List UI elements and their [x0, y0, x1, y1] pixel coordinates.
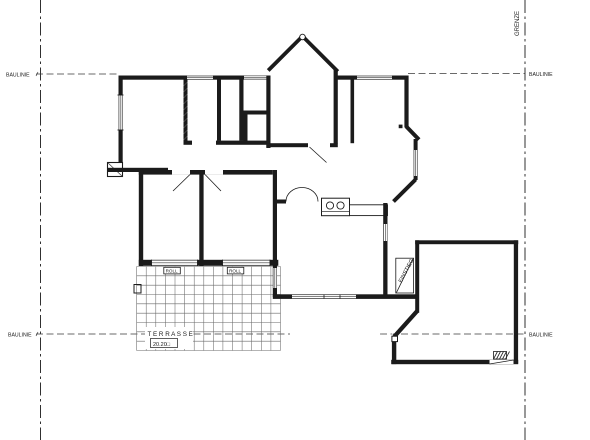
wall: essen bay east	[414, 139, 418, 180]
terrace paving grid	[137, 267, 281, 351]
window: west wall gaestezimmer	[119, 95, 123, 130]
door swing kind	[205, 175, 221, 192]
wall: essen bay lower diagonal	[394, 180, 416, 202]
svg-text:T E R R A S S E: T E R R A S S E	[148, 331, 193, 338]
wall: west exterior gaestezimmer	[119, 76, 123, 164]
wall: entry west below diagonal	[392, 342, 396, 365]
property line left (dash-dot)	[40, 0, 42, 440]
BAULINIE lower dashed line	[36, 333, 290, 335]
window: north wall above bad	[187, 76, 213, 80]
svg-text:BAULINIE: BAULINIE	[8, 333, 32, 339]
arc door diele to wohnen	[286, 188, 318, 202]
window marks on bay lower diagonal	[391, 177, 413, 199]
wall: bathtub right plumbing	[239, 80, 243, 141]
door gap to eltern	[172, 170, 190, 175]
roll shutter box eltern window	[164, 267, 181, 274]
fireplace unit between diele and wohnen	[322, 198, 350, 216]
wall: bad south / gang north	[184, 141, 193, 145]
wall: south exterior wohnen/einstieg	[273, 294, 419, 299]
terrace left step	[134, 285, 141, 294]
svg-text:BAULINIE: BAULINIE	[529, 72, 553, 78]
window: kitchen north	[357, 76, 392, 80]
wall: wohnen east	[383, 203, 387, 295]
wall: courtyard north	[415, 240, 518, 244]
wall: courtyard east	[514, 240, 518, 363]
wall: below wc	[244, 111, 270, 115]
window: kind south	[223, 260, 271, 265]
wall: entrance diagonal with mailbox	[394, 311, 417, 336]
wall: einstieg east	[415, 240, 419, 312]
wall: north exterior (gaestezimmer-bad-wc)	[119, 76, 271, 80]
wall: north exterior kitchen strip	[335, 76, 409, 80]
half wall with stipple wohnen/essen	[350, 205, 388, 216]
svg-text:BAULINIE: BAULINIE	[529, 333, 553, 339]
stair block: east wall	[334, 69, 338, 144]
hatch gaestezimmer/bad wall	[184, 82, 188, 86]
stair door swing to diele	[310, 147, 327, 163]
stair block: left roof slope wall	[268, 36, 303, 71]
property line GRENZE right (dash-dot)	[524, 0, 526, 440]
wall: eltern west exterior	[139, 170, 143, 266]
window: essen bay east	[414, 150, 417, 176]
wall: pantry/kitchen partition	[351, 80, 355, 144]
garage door opening hatch	[490, 360, 514, 364]
wall: wohnen north-west segment	[276, 200, 287, 204]
wall post WS 25/15	[399, 125, 403, 129]
wall: kitchen east exterior	[404, 76, 408, 128]
wall: eltern/kind partition	[199, 175, 203, 267]
svg-text:GRENZE: GRENZE	[515, 11, 521, 36]
wall: gaestezimmer/bad partition (plumbing)	[184, 80, 188, 142]
door swing eltern	[173, 175, 190, 192]
stair peak circle RRS	[300, 34, 306, 40]
svg-text:BAULINIE: BAULINIE	[6, 73, 30, 79]
wall: gang south / bedrooms north	[139, 170, 273, 175]
wall: courtyard south	[391, 360, 518, 364]
wall: wc east / stair west	[266, 76, 270, 149]
einstieg dashed box	[396, 258, 414, 293]
stair block: south wall	[266, 143, 308, 147]
garage door hatched box	[494, 352, 507, 360]
chimney block on west wall	[108, 163, 123, 177]
door gap to kind	[205, 170, 223, 175]
stair block: west wall	[266, 76, 270, 149]
entrance corner block	[392, 336, 398, 341]
terrace label background	[145, 327, 193, 349]
BAULINIE upper dashed line left segment	[36, 73, 119, 75]
wall: kind/wohnen west	[273, 170, 277, 297]
BAULINIE upper dashed line right segment	[408, 73, 525, 75]
roll shutter box kind window	[227, 267, 244, 274]
svg-text:20.20□: 20.20□	[153, 342, 171, 348]
svg-text:ROLL: ROLL	[229, 269, 241, 274]
wall: bathtub left plumbing	[217, 80, 221, 141]
window: wohnen east	[384, 224, 388, 241]
window: wohnen south	[292, 295, 356, 299]
stair block: right roof slope wall	[302, 36, 338, 72]
door marks on entrance diagonal	[392, 309, 414, 334]
window: eltern south	[152, 260, 198, 265]
wall hatch: storage west	[244, 111, 248, 142]
svg-text:ROLL: ROLL	[166, 269, 178, 274]
terrace area box 20.20	[151, 339, 178, 348]
window: north wall above wc	[244, 76, 267, 80]
wall: kitchen diagonal to bay	[406, 127, 419, 140]
wall: bedrooms south exterior	[139, 260, 278, 266]
door gap west wohnen to terrace	[273, 268, 277, 288]
wall: gaestezimmer south	[108, 168, 169, 172]
